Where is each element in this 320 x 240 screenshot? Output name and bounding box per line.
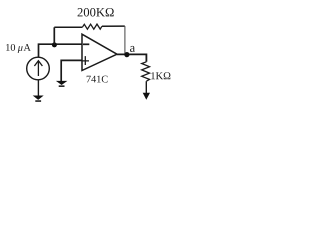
label 10uA — [6, 44, 31, 53]
op-amp U1 triangle — [82, 34, 117, 70]
resistor R2 1K zigzag — [142, 62, 150, 81]
resistor R1 200K zigzag — [82, 24, 102, 29]
wire 1K bottom lead — [145, 81, 147, 95]
label a — [130, 46, 135, 52]
ground arrow below 1K — [143, 93, 150, 100]
wire feedback top left segment — [54, 26, 82, 28]
wire feedback top right segment — [102, 25, 125, 27]
ground under current source — [33, 96, 44, 102]
wire current source bottom to ground — [37, 80, 39, 96]
label 741C — [87, 76, 108, 83]
label 200K — [78, 8, 114, 17]
op-amp plus sign — [82, 56, 89, 65]
op-amp minus sign — [83, 43, 89, 45]
wire feedback left vertical — [53, 27, 55, 44]
wire current source top to op-amp minus input — [39, 44, 83, 57]
label 1K — [151, 72, 170, 79]
ground at plus input — [56, 81, 68, 87]
wire op-amp output to node a and right corner — [117, 54, 146, 61]
current source I1 — [27, 57, 50, 80]
node junction dot — [52, 42, 57, 47]
wire feedback right vertical — [124, 26, 126, 53]
node a dot — [124, 52, 129, 57]
wire plus input to ground — [61, 60, 82, 81]
